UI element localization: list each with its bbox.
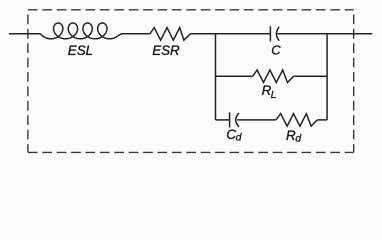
svg-text:C: C: [271, 42, 281, 57]
svg-text:RL: RL: [262, 83, 277, 101]
resistor ESR: [150, 28, 190, 41]
node B vertical wire: [326, 34, 328, 120]
resistor RL: [253, 70, 294, 83]
wire Cd to Rd: [237, 119, 276, 121]
capacitor Cd left plate: [229, 112, 231, 127]
svg-text:Rd: Rd: [286, 128, 302, 145]
inductor ESL: [40, 23, 123, 39]
wire bottom branch left: [216, 119, 230, 121]
wire RL branch right: [294, 75, 327, 77]
svg-text:ESR: ESR: [152, 43, 180, 58]
capacitor C right curved plate: [276, 27, 279, 41]
wire ESR to node A: [190, 33, 270, 35]
wire left lead: [9, 33, 40, 35]
node A vertical wire: [215, 34, 217, 120]
dashed enclosure box: [28, 10, 354, 153]
wire ESL to ESR: [123, 33, 150, 35]
capacitor Cd right curved plate: [236, 113, 239, 127]
wire RL branch left: [216, 75, 253, 77]
svg-text:ESL: ESL: [68, 43, 93, 58]
wire C to node B and right lead: [277, 33, 372, 35]
svg-text:Cd: Cd: [226, 127, 242, 144]
wire Rd to node B: [317, 119, 327, 121]
capacitor C left plate: [269, 26, 271, 41]
resistor Rd: [276, 114, 317, 127]
